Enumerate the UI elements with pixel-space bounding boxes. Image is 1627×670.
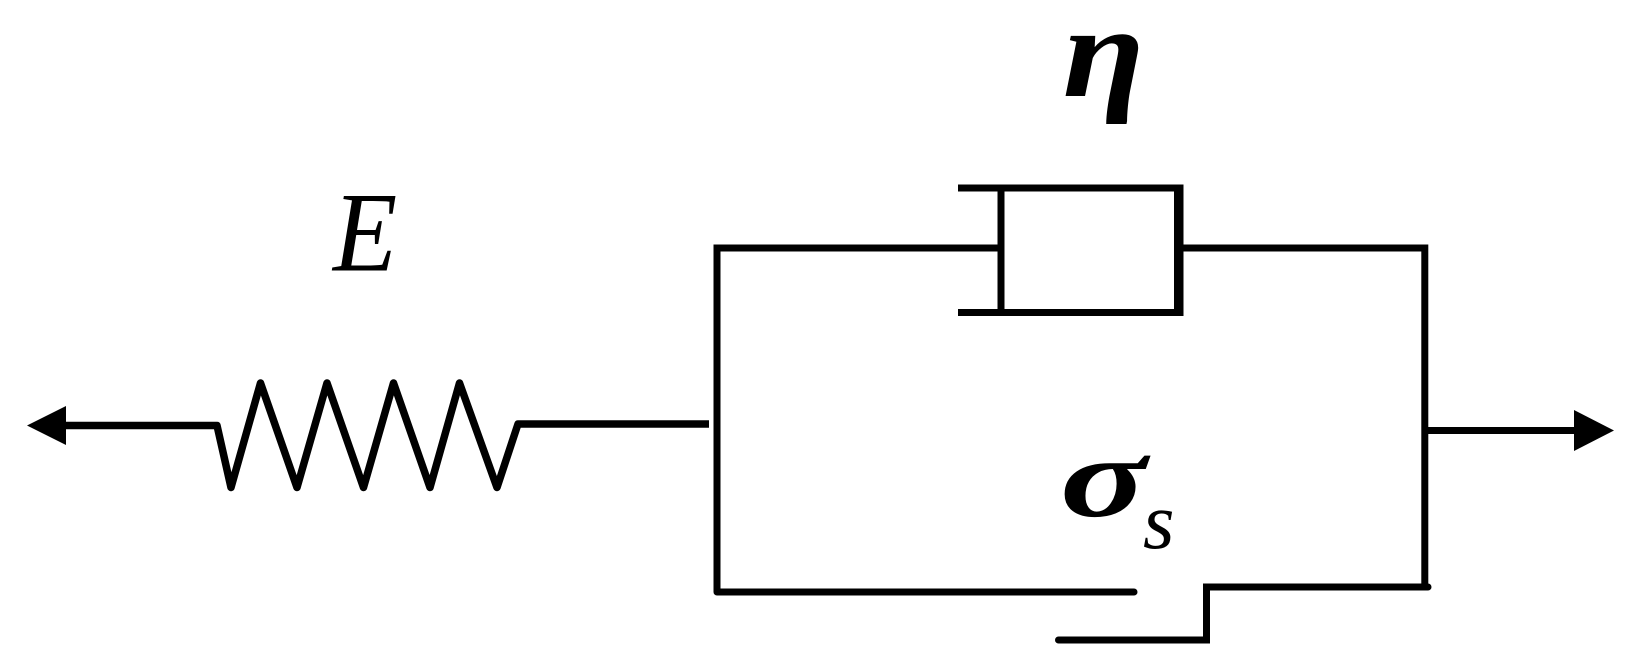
svg-text:η: η bbox=[1063, 0, 1145, 125]
svg-text:s: s bbox=[1143, 476, 1175, 566]
svg-text:E: E bbox=[331, 170, 397, 295]
svg-text:σ: σ bbox=[1060, 414, 1151, 541]
